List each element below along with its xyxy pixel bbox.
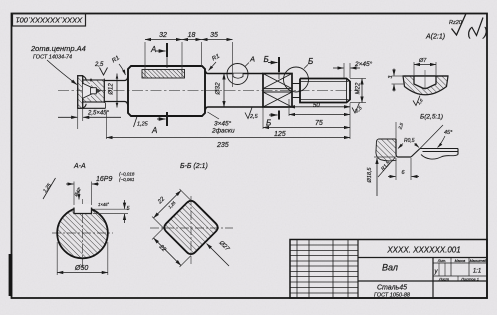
svg-text:ГОСТ 1050-88: ГОСТ 1050-88 <box>374 293 411 299</box>
svg-text:1×45°: 1×45° <box>98 202 109 207</box>
svg-text:Масса: Масса <box>455 259 466 263</box>
svg-text:Ø18,5: Ø18,5 <box>367 167 373 184</box>
svg-text:Б: Б <box>264 55 269 64</box>
svg-text:ХХХХ. ХХХХХХ.001: ХХХХ. ХХХХХХ.001 <box>386 246 460 255</box>
svg-text:75: 75 <box>315 120 323 127</box>
svg-text:Вал: Вал <box>382 263 398 273</box>
svg-text:2,5: 2,5 <box>249 114 259 120</box>
svg-text:Листов 1: Листов 1 <box>460 277 479 282</box>
svg-text:Сталь45: Сталь45 <box>377 285 407 292</box>
svg-text:3×45°: 3×45° <box>214 120 232 128</box>
svg-text:А: А <box>151 126 157 135</box>
svg-text:125: 125 <box>274 131 286 138</box>
svg-text:2,5: 2,5 <box>94 62 104 68</box>
svg-text:2отв.центр.А4: 2отв.центр.А4 <box>30 44 86 53</box>
svg-text:Ø32: Ø32 <box>215 82 222 96</box>
svg-text:ГОСТ 14034-74: ГОСТ 14034-74 <box>33 55 72 61</box>
svg-text:Б-Б (2:1): Б-Б (2:1) <box>180 163 208 170</box>
svg-text:Б: Б <box>308 57 313 66</box>
svg-text:18: 18 <box>188 32 196 39</box>
svg-text:235: 235 <box>216 142 229 149</box>
svg-text:А: А <box>249 55 255 64</box>
svg-text:Ø7: Ø7 <box>418 58 427 64</box>
svg-text:1,25: 1,25 <box>137 122 149 128</box>
svg-text:(−0,061: (−0,061 <box>119 177 135 182</box>
svg-text:Ø50: Ø50 <box>74 265 88 272</box>
svg-text:50: 50 <box>313 103 320 109</box>
svg-text:Лит.: Лит. <box>437 259 446 263</box>
svg-text:А: А <box>150 45 156 54</box>
svg-text:32: 32 <box>159 32 167 39</box>
svg-text:XXXX.XXXXXX.001: XXXX.XXXXXX.001 <box>16 16 84 25</box>
svg-text:Лист: Лист <box>438 277 450 282</box>
svg-text:Б(2,5:1): Б(2,5:1) <box>420 114 443 121</box>
svg-text:2,5×45°: 2,5×45° <box>87 111 110 117</box>
svg-text:16Р9: 16Р9 <box>96 176 112 183</box>
svg-text:35: 35 <box>210 32 218 39</box>
svg-text:45°: 45° <box>444 130 453 136</box>
svg-text:2фаски: 2фаски <box>211 128 235 135</box>
svg-text:2×45°: 2×45° <box>354 60 373 68</box>
svg-text:Ø12: Ø12 <box>109 83 115 96</box>
svg-text:М22: М22 <box>356 82 362 94</box>
svg-text:1:1: 1:1 <box>473 269 481 275</box>
svg-text:R0,5: R0,5 <box>404 138 415 144</box>
svg-text:Б: Б <box>266 119 271 128</box>
svg-text:(−0,018: (−0,018 <box>119 172 135 177</box>
svg-text:А(2:1): А(2:1) <box>425 34 445 41</box>
svg-text:Масштаб: Масштаб <box>470 259 488 263</box>
svg-text:3: 3 <box>388 76 394 79</box>
svg-text:А-А: А-А <box>73 163 86 170</box>
